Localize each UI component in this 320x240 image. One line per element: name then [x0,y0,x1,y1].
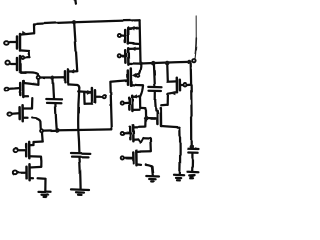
ground GND-D [174,174,184,177]
wire ring C down to Q5 drain [41,133,44,141]
wire net N130 horizontal [44,129,112,130]
node dot E [165,61,170,66]
wire far right vertical light [195,16,197,38]
wire right rail horizontal [140,62,189,64]
transistor Q11 [127,71,130,85]
capacitor C4 [71,152,90,155]
ground GND-B [71,188,89,191]
node terminal ring G [192,59,195,62]
node dot B [51,76,55,80]
wire gate tap with dot [148,117,155,119]
node ring C [40,129,43,132]
transistor Q1 [4,41,9,45]
wire Q5 source to Q6 drain [40,157,43,167]
node VDD junction dot [72,20,76,24]
transistor Q14b lower [121,156,124,159]
ground GND-A [39,191,51,194]
wire Q2 source drop to node ring [37,74,39,76]
wire Q4 source to node ring C [32,118,41,128]
wire Q7 source long vertical to C4 [78,88,79,153]
transistor Q5 [13,148,17,152]
node dot on N130 [55,128,59,132]
wire node A to gate dot [40,76,50,78]
wire big rail Q11 gate [110,82,111,129]
wire Q13 source to ground [179,128,182,175]
wire Q13b source jog to Q14b drain [143,137,150,139]
wire far right long drop [191,63,192,145]
transistor Q9 [118,34,121,37]
wire center vertical from VDD dot [74,23,77,70]
transistor Q14 right mirrored [166,65,169,81]
wire Q14b source to ground [146,165,152,167]
transistor Q7 center [55,76,64,78]
ground GND-C [146,175,159,178]
wire Q11 source to Q12 drain [140,85,143,96]
transistor Q3 [5,88,9,91]
node dot rail corner [139,62,143,66]
capacitor C1 from dot B [53,80,54,99]
transistor Q13b lower [121,132,124,135]
transistor Q10 [118,54,121,57]
wire Q6 source to ground [38,177,46,180]
node ring A [37,76,40,79]
wire Q1 source to Q2 drain [28,51,31,58]
transistor Q12 [121,102,124,105]
capacitor C3 [188,148,199,151]
transistor Q6 [13,170,17,174]
wire Q3 source to Q4 drain [31,98,34,109]
wire right rail vertical [138,20,141,62]
capacitor C2 from dot D [153,66,156,86]
transistor Q2 [5,61,9,65]
wire VDD stub tick [74,0,77,3]
node dot D [151,61,156,66]
transistor Q13 right mirrored [156,111,159,124]
wire Q12 source down [139,97,141,108]
wire top rail VDD [34,20,140,24]
node dot H [190,145,194,149]
transistor Q8 mirrored [78,90,91,93]
ground GND-E [188,171,198,174]
wire left VDD drop [33,24,35,33]
node dot F [187,60,191,64]
transistor Q4 [7,112,11,115]
